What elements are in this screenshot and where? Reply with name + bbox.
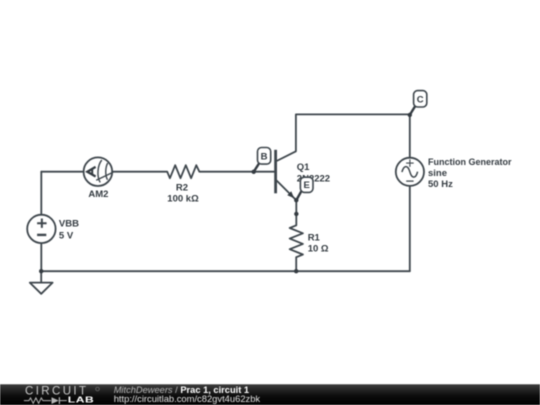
ground xyxy=(30,283,53,294)
wire top-left horizontal to ammeter xyxy=(41,171,83,173)
svg-text:http://circuitlab.com/c82gvt4u: http://circuitlab.com/c82gvt4u62zbk xyxy=(114,393,261,404)
wire emitter to R1 xyxy=(295,200,297,225)
junction node B dot xyxy=(252,170,256,174)
footer logo waveform xyxy=(24,397,67,404)
svg-text:C: C xyxy=(417,94,424,105)
svg-text:E: E xyxy=(304,180,310,191)
wire collector up and across to node C xyxy=(296,114,410,151)
wire R2 to transistor base xyxy=(199,171,275,173)
wire ammeter to R2 xyxy=(112,171,167,173)
label VBB 5 V xyxy=(59,219,79,242)
svg-text:Function Generator: Function Generator xyxy=(428,157,512,167)
node C leader xyxy=(410,106,415,115)
resistor R2 xyxy=(167,165,199,178)
wire ground stub xyxy=(40,271,42,282)
svg-text:AM2: AM2 xyxy=(88,189,108,200)
node E label xyxy=(300,177,313,192)
svg-text:sine: sine xyxy=(428,168,447,179)
voltage source VBB xyxy=(27,215,55,243)
node C label xyxy=(414,91,427,107)
svg-text:Q1: Q1 xyxy=(297,162,310,173)
svg-text:50 Hz: 50 Hz xyxy=(428,179,453,190)
node B leader xyxy=(254,164,259,172)
svg-text:R2: R2 xyxy=(176,182,188,193)
junction R1-bottom rail dot xyxy=(294,269,298,273)
wire node C down to function generator xyxy=(409,114,411,157)
wire R1 to bottom rail xyxy=(295,257,297,271)
wire function generator to bottom rail xyxy=(409,186,411,271)
junction emitter-R1 dot xyxy=(294,212,298,216)
transistor Q1 xyxy=(276,150,297,200)
svg-text:R1: R1 xyxy=(308,233,321,244)
wire left vertical (VBB top to main rail) xyxy=(40,172,42,215)
label R1 10 Ω xyxy=(308,233,329,255)
label Function Generator sine 50 Hz xyxy=(428,157,512,190)
emitter arrow xyxy=(287,191,294,198)
svg-text:100 kΩ: 100 kΩ xyxy=(167,193,199,204)
wire VBB bottom to ground junction xyxy=(40,243,42,271)
junction node C dot xyxy=(408,113,412,117)
svg-text:B: B xyxy=(261,151,268,162)
junction node E dot xyxy=(294,198,298,202)
footer bar xyxy=(0,384,540,405)
svg-text:LAB: LAB xyxy=(68,396,94,405)
label R2 100 kΩ xyxy=(167,182,199,204)
svg-text:VBB: VBB xyxy=(59,219,79,230)
function generator V1 xyxy=(396,158,424,186)
junction ground dot xyxy=(39,269,43,273)
wire bottom rail xyxy=(41,270,410,272)
svg-text:10 Ω: 10 Ω xyxy=(308,244,329,255)
ammeter AM2 xyxy=(84,157,114,186)
node E leader xyxy=(296,191,301,200)
resistor R1 xyxy=(290,225,303,257)
svg-text:5 V: 5 V xyxy=(59,230,74,241)
label Q1 2N2222 xyxy=(297,162,330,185)
node B label xyxy=(258,148,271,165)
